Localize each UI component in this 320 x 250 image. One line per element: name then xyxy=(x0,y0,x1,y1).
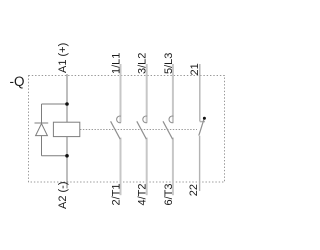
svg-text:6/T3: 6/T3 xyxy=(163,183,175,205)
svg-text:A1 (+): A1 (+) xyxy=(57,43,69,73)
svg-text:21: 21 xyxy=(189,63,201,75)
svg-text:A2 (-): A2 (-) xyxy=(57,182,69,210)
svg-text:2/T1: 2/T1 xyxy=(111,183,123,205)
svg-text:3/L2: 3/L2 xyxy=(137,53,149,74)
svg-text:5/L3: 5/L3 xyxy=(163,53,175,74)
svg-text:4/T2: 4/T2 xyxy=(137,183,149,205)
svg-text:1/L1: 1/L1 xyxy=(111,53,123,74)
svg-text:-Q: -Q xyxy=(10,74,25,89)
svg-text:22: 22 xyxy=(188,184,200,196)
